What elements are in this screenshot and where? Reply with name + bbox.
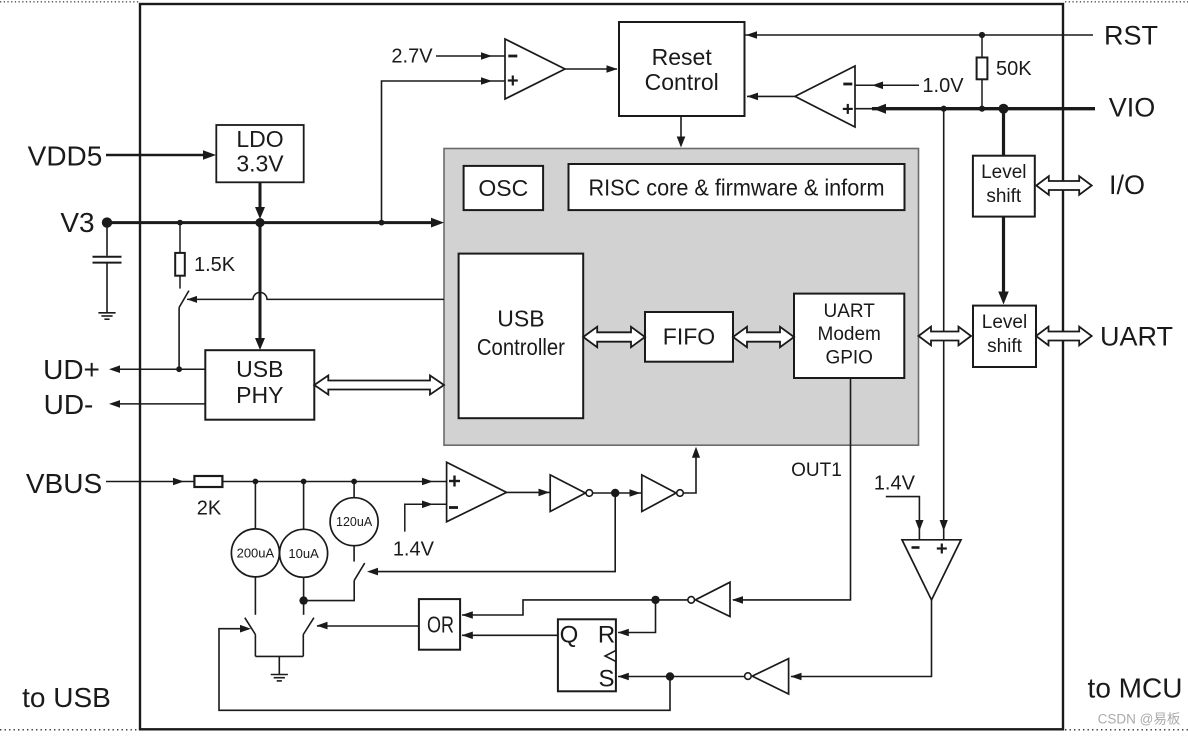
wire VDD5 to LDO (bold) [106,154,210,157]
wire VIO to Level shift 1 (bold) [1002,109,1005,156]
node junction 10uA/SW2/SW4 [299,596,307,604]
op-amp U1 (2.7V comparator) [505,39,565,99]
wire U2 output to Reset Control [747,95,795,97]
svg-text:USB: USB [236,356,283,382]
block LDO 3.3V [216,125,303,182]
svg-text:Control: Control [645,69,719,95]
svg-text:10uA: 10uA [288,546,319,561]
wire U6 output up into core [683,452,696,493]
node junction VIO/comparator branch [941,106,947,112]
wire 2K to U3 plus input [222,481,446,483]
svg-text:Controller: Controller [477,334,565,360]
svg-text:S: S [598,666,614,693]
block FIFO [645,312,733,362]
svg-text:PHY: PHY [236,382,283,408]
resistor R 1.5K [179,223,181,253]
wire Level shift 1 to Level shift 2 (bold) [1002,217,1005,297]
svg-text:RISC core & firmware & inform: RISC core & firmware & inform [589,175,885,201]
svg-text:VBUS: VBUS [26,468,102,499]
block UART Modem GPIO [794,294,904,378]
block Level shift (UART) [973,306,1036,367]
svg-text:RST: RST [1104,21,1158,51]
wire VIO branch arrow into U4 plus input [940,520,948,531]
svg-text:OSC: OSC [478,175,528,201]
svg-text:3.3V: 3.3V [236,151,284,177]
svg-text:shift: shift [986,186,1022,207]
switch SW3 (200uA leg) [245,618,256,635]
svg-text:2K: 2K [197,498,222,520]
bus Level shift 2 to UART port (double arrow) [1036,327,1092,346]
wire 2.7V to U1 minus input [436,55,505,57]
bus core to Level shift 2 (double arrow) [919,327,972,346]
block Reset Control [619,22,745,116]
node junction VIO/50K [979,106,985,112]
wire V3 to USB PHY (bold) [259,223,262,344]
ground (below switches) [271,674,288,676]
node junction U7 output [651,596,659,604]
chip boundary [140,4,1063,729]
svg-text:UD+: UD+ [43,354,100,385]
block USB Controller [459,254,584,419]
wire SW3 control (from bottom loop) [240,625,251,633]
wire switches common to ground [255,655,303,657]
svg-text:OR: OR [427,612,454,638]
wire OR output to switch SW4 [317,625,419,627]
svg-text:1.5K: 1.5K [194,254,236,276]
op-amp U3 (VBUS comparator) [447,462,507,522]
switch SW4 (10uA leg) [303,601,305,615]
svg-text:CSDN @易板: CSDN @易板 [1098,712,1181,727]
wire junction to R input [618,600,656,633]
node junction V3/USB-PHY branch [255,218,264,227]
svg-text:R: R [598,622,615,649]
svg-text:Modem: Modem [818,324,881,345]
node junction RST/50K [979,32,985,38]
svg-text:to MCU: to MCU [1088,673,1183,704]
svg-text:1.0V: 1.0V [922,75,964,97]
wire 1.0V to U2 minus input [855,84,919,86]
wire V3 to U1 plus input [382,81,506,223]
svg-text:LDO: LDO [236,126,283,152]
node junction V3/1.5K [177,220,183,226]
clock marker on U8 [605,650,616,661]
switch SW1 (1.5K pull-up control) [179,291,189,308]
svg-text:shift: shift [987,336,1023,357]
svg-text:50K: 50K [996,58,1032,80]
wire core branch to comparator U4 (vertical) [943,109,945,540]
wire LDO output to V3 rail (bold) [259,182,262,212]
node junction V3/U1 branch [379,220,385,226]
chip boundary dotted extension (bottom) [0,729,139,731]
wire U4 output to inverter U9 [791,600,932,677]
wire SW2 control from inverter U5 output [370,493,615,572]
inverter U7 (to R input) [695,582,730,616]
wire U5 to U6 [593,492,642,494]
wire 1.4V to U3 minus input [405,504,447,531]
chip boundary dotted extension (top) [0,1,139,3]
wire SW1 control from core (with hop) [187,292,444,299]
svg-text:VDD5: VDD5 [28,141,103,172]
wire 10uA node to SW2 [304,580,355,600]
svg-text:1.4V: 1.4V [874,473,916,495]
svg-text:V3: V3 [60,207,94,238]
wire RST net [746,34,1094,36]
inverter U5 [550,475,585,512]
node junction VIO/level-shift (bold) [999,104,1009,114]
svg-text:GPIO: GPIO [825,348,873,369]
wire Reset Control to core (down arrow) [680,116,682,142]
capacitor C1 on V3 [106,223,108,256]
current source I2 10uA [303,482,305,530]
wire U7 output to OR input 1 [462,600,688,615]
wire U3 output to inverter U5 [507,491,551,493]
wire Q output to OR input 2 [462,634,558,636]
svg-text:2.7V: 2.7V [391,46,433,68]
wire OUT1 from UART block to inverter U7 [733,378,851,600]
wire VBUS to 2K [106,481,194,483]
node junction UD+/SW1 [176,366,182,372]
block USB PHY [205,350,314,420]
svg-text:Reset: Reset [652,44,713,70]
node junction VBUS/200uA [253,479,259,485]
current source I1 200uA [254,482,256,530]
wire UD- net [113,403,205,405]
resistor R 50K [981,35,983,58]
node junction VBUS/120uA [351,479,357,485]
bus Level shift 1 to I/O port (double arrow) [1036,176,1091,195]
wire V3 rail (bold) [107,221,438,224]
svg-text:VIO: VIO [1109,93,1156,123]
op-amp U2 (1.0V comparator) [795,66,855,127]
wire 1.4V to U4 minus input [886,497,920,540]
block RISC core & firmware & inform [569,164,905,210]
wire U1 output to Reset Control [565,68,617,70]
svg-text:1.4V: 1.4V [393,539,435,561]
flip-flop U8 (RS latch) [558,619,616,691]
current source I3 120uA [353,482,355,498]
svg-text:UART: UART [1100,322,1173,352]
wire U9 output to S input [618,676,745,678]
svg-text:I/O: I/O [1109,170,1145,200]
resistor R 2K [194,476,222,487]
svg-text:USB: USB [497,306,544,332]
node V3 terminal [102,217,112,227]
svg-text:UD-: UD- [44,389,94,420]
bus USB PHY to core (double arrow) [314,375,444,394]
wire UD+ net [113,368,205,370]
bus USB Controller to FIFO (double arrow) [583,327,645,347]
bus FIFO to UART block (double arrow) [733,327,794,347]
svg-text:Q: Q [560,622,579,649]
inverter U9 (to S input) [752,659,788,694]
ground (below C1) [98,312,115,314]
inverter U6 [642,475,676,512]
svg-text:Level: Level [981,162,1026,183]
node junction S/bottom loop [666,672,674,680]
svg-text:200uA: 200uA [237,546,275,561]
RISC core block background [444,149,919,446]
svg-text:UART: UART [824,301,876,322]
block OSC [464,166,543,210]
switch SW2 (120uA enable) [354,563,365,580]
svg-text:OUT1: OUT1 [791,460,842,481]
wire bottom loop to SW3 control [219,629,670,711]
svg-text:FIFO: FIFO [663,324,715,350]
block Level shift (I/O) [973,156,1035,217]
svg-text:120uA: 120uA [336,515,373,529]
op-amp U4 (suspend comparator) [902,540,961,600]
wire SW1 to UD+ node [178,308,180,370]
node junction U5 output [611,489,619,497]
node junction VBUS/10uA [301,479,307,485]
wire VIO rail (bold) [855,108,876,110]
svg-text:to USB: to USB [22,682,111,713]
svg-text:Level: Level [982,312,1027,333]
gate OR [419,599,460,650]
